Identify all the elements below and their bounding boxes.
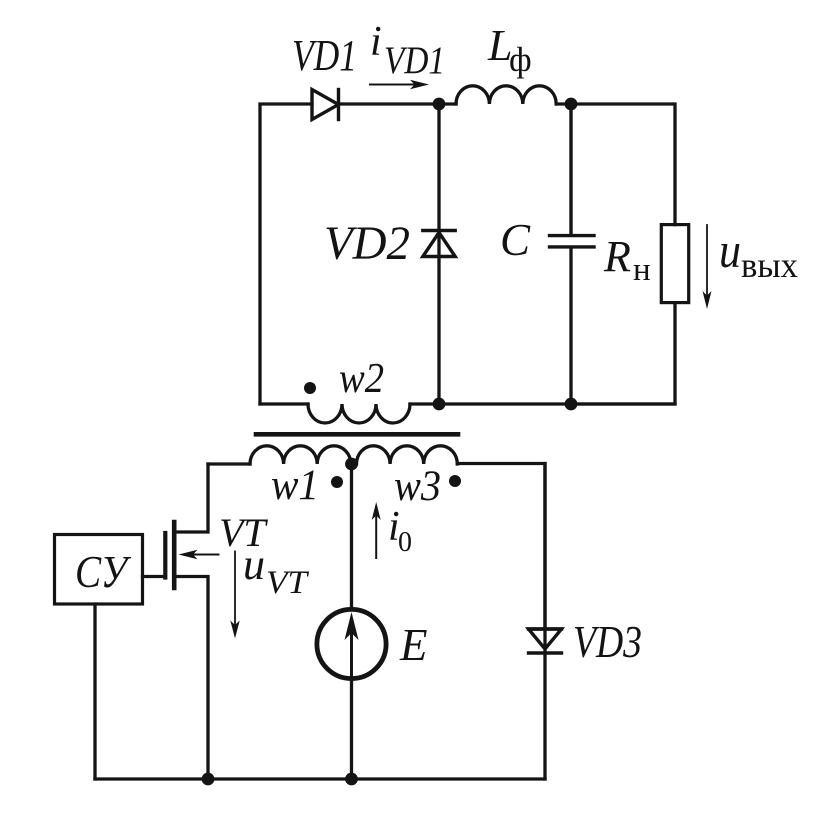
resistor Rn	[661, 225, 688, 303]
winding w1	[250, 446, 351, 464]
transistor VT	[165, 464, 218, 779]
capacitor C	[550, 104, 595, 404]
svg-text:C: C	[500, 215, 531, 265]
source E	[317, 609, 386, 678]
svg-text:E: E	[399, 620, 428, 670]
svg-text:R: R	[603, 232, 631, 281]
node B (top of C)	[565, 98, 578, 111]
bottom rail wire	[95, 777, 545, 780]
svg-text:СУ: СУ	[75, 547, 131, 597]
junction dot source-rail	[202, 773, 215, 786]
svg-text:u: u	[243, 540, 265, 589]
wire Rn bottom to bottom-right corner and left to node D	[571, 303, 675, 404]
diode VD2 with vertical wire	[423, 104, 455, 404]
svg-text:i: i	[370, 19, 382, 65]
svg-text:VD3: VD3	[573, 617, 642, 667]
svg-text:w1: w1	[271, 462, 319, 509]
svg-text:VD1: VD1	[384, 39, 445, 82]
inductor Lf	[456, 86, 556, 104]
transformer core	[256, 432, 458, 437]
wire drain lead to w1	[208, 462, 250, 465]
voltage arrow u_vyh	[703, 225, 712, 309]
current arrow i_VD1	[370, 80, 429, 89]
svg-text:0: 0	[398, 527, 412, 558]
wire secondary rail left segment	[260, 402, 308, 405]
wire top-left loop: left vertical and top segment to VD1 anode	[260, 104, 312, 404]
node E2 (bottom of VD2)	[433, 398, 446, 411]
svg-text:VD1: VD1	[292, 31, 357, 80]
junction dot E-rail	[345, 773, 358, 786]
control unit CU box	[55, 535, 143, 605]
wire gate lead	[143, 575, 164, 578]
polarity dot w3	[449, 475, 461, 487]
wire Lf to node B	[556, 102, 571, 105]
polarity dot w2	[304, 382, 316, 394]
svg-text:н: н	[633, 252, 651, 288]
node A (top of VD2)	[433, 98, 446, 111]
wire w3 to right corner and down to VD3	[457, 464, 545, 629]
wire E source to bottom rail	[350, 679, 353, 780]
wire node A to Lf	[439, 102, 456, 105]
wire center vertical from node F to E source	[350, 464, 353, 610]
node D (bottom of C)	[565, 398, 578, 411]
node F (w1-w3 junction)	[345, 458, 358, 471]
wire node B to top-right corner and down to Rn	[571, 104, 675, 225]
diode VD3 with vertical wire	[529, 464, 562, 780]
diode VD1	[312, 90, 339, 120]
svg-text:w3: w3	[394, 463, 441, 510]
svg-text:VD2: VD2	[324, 217, 410, 270]
wire VD1 cathode to node A	[339, 102, 440, 105]
voltage arrow u_VT	[230, 552, 239, 639]
svg-text:вых: вых	[741, 245, 798, 285]
winding w3	[357, 446, 458, 464]
svg-text:u: u	[719, 222, 741, 278]
svg-text:VT: VT	[266, 565, 310, 601]
svg-text:ф: ф	[509, 40, 532, 79]
polarity dot w1	[331, 476, 343, 488]
svg-text:w2: w2	[339, 356, 384, 402]
wire w2 to node E2 and to node D	[410, 402, 675, 405]
winding w2	[308, 404, 410, 423]
current arrow i_0	[372, 502, 381, 558]
wire CU box to bottom rail	[93, 604, 96, 779]
